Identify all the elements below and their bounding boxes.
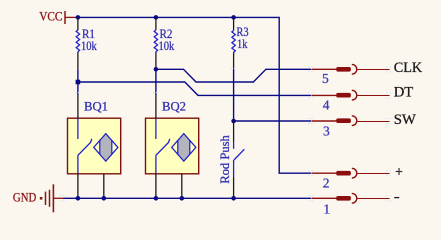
wire end marker R2/BQ2 [153, 92, 160, 94]
svg-text:5: 5 [322, 71, 329, 86]
svg-text:10k: 10k [81, 39, 97, 53]
junction GND/BQ2-1 [154, 196, 159, 201]
switch BQ2 contact and lever [156, 118, 170, 174]
switch BQ1 body [68, 118, 121, 174]
pin BQ2-2 to ground rail [181, 174, 183, 199]
resistor R2 [154, 17, 175, 68]
resistor R1 [76, 17, 97, 69]
junction GND/BQ1-1 [76, 196, 81, 201]
connector pin 3 [312, 116, 390, 126]
pin end marker GND [60, 196, 66, 201]
power port VCC [39, 9, 78, 24]
net label + [396, 168, 403, 175]
svg-text:1: 1 [323, 201, 330, 216]
junction node SW (R3/Rod Push/SW wire) [231, 119, 236, 124]
wire VCC rail to pin 2 [78, 17, 312, 173]
connector pin 1 [312, 193, 390, 203]
svg-text:BQ1: BQ1 [84, 98, 108, 113]
svg-text:CLK: CLK [394, 60, 423, 76]
pin BQ1-2 to ground rail [103, 174, 105, 199]
wire end marker R1/BQ1 [75, 92, 82, 94]
svg-text:GND: GND [13, 189, 36, 204]
junction VCC/R3 [231, 15, 236, 20]
pin BQ2-1 to ground rail [155, 174, 157, 199]
junction VCC/R2 [154, 15, 159, 20]
resistor R3 [232, 17, 249, 69]
connector pin 4 [312, 90, 390, 100]
junction node B (R2/CLK wire) [154, 67, 159, 72]
pin end marker R3 [230, 68, 237, 70]
svg-text:3: 3 [323, 123, 330, 138]
svg-text:4: 4 [323, 97, 330, 112]
net label - [394, 197, 399, 199]
wire DT net (node A to pin 4) [78, 82, 312, 95]
wire CLK net (node B to pin 5) [156, 69, 312, 82]
connector pin 5 [312, 64, 390, 74]
junction GND/BQ2-2 [180, 196, 185, 201]
wire SW net (node to pin 3) [234, 120, 312, 122]
switch Rod Push [234, 121, 245, 198]
wire R1 to BQ1 [77, 69, 79, 95]
ground rail wire [63, 197, 312, 199]
svg-text:1k: 1k [237, 37, 248, 51]
wire R3 to SW node [233, 69, 235, 121]
power port GND [13, 184, 63, 212]
wire R2 to BQ2 [155, 69, 157, 95]
svg-text:SW: SW [394, 112, 417, 128]
svg-text:VCC: VCC [39, 9, 62, 24]
junction GND/Rod Push [231, 196, 236, 201]
svg-text:Rod Push: Rod Push [217, 135, 232, 184]
switch BQ2 body [146, 118, 199, 174]
switch BQ1 contact and lever [78, 118, 92, 174]
svg-text:10k: 10k [159, 39, 175, 53]
svg-text:2: 2 [323, 176, 330, 191]
junction node A (R1/DT wire) [76, 80, 81, 85]
connector pin 2 [312, 168, 390, 178]
junction VCC/R1 [76, 15, 81, 20]
svg-text:BQ2: BQ2 [162, 98, 186, 113]
encoder detent symbol BQ2 [172, 134, 196, 162]
pin BQ2 top [155, 95, 157, 118]
pin end markers connector [308, 67, 393, 201]
encoder detent symbol BQ1 [94, 134, 118, 162]
pin BQ1 top [77, 95, 79, 118]
svg-text:DT: DT [394, 84, 414, 100]
pin BQ1-1 to ground rail [77, 174, 79, 199]
junction GND/BQ1-2 [102, 196, 107, 201]
